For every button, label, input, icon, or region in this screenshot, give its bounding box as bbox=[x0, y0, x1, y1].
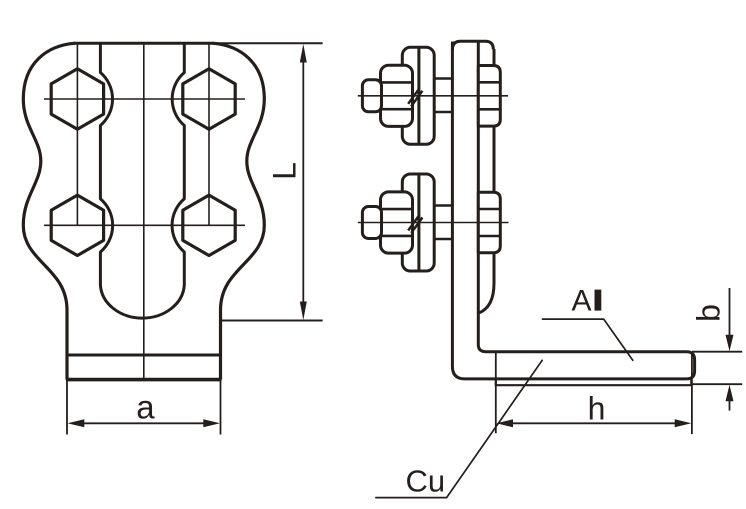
base plate top seam bbox=[67, 354, 221, 357]
svg-text:Cu: Cu bbox=[406, 464, 446, 499]
dimension a extension left bbox=[66, 381, 68, 435]
svg-text:L: L bbox=[267, 162, 303, 180]
side view: top cap of plates bbox=[452, 41, 493, 50]
dimension h extension right bbox=[691, 352, 693, 434]
dimension h extension left bbox=[495, 353, 497, 433]
lower right-side nut bbox=[478, 192, 500, 253]
dimension a line bbox=[84, 422, 204, 424]
dimension b arrow up bbox=[726, 385, 734, 402]
Cu label leader bbox=[375, 360, 542, 498]
side view: L-bracket (Al) outline bbox=[452, 42, 694, 379]
hexagon bolt head upper-right bbox=[183, 69, 235, 129]
side view: rear strip right edge with taper bbox=[479, 49, 494, 313]
lower nut facet lines bbox=[381, 209, 413, 236]
Al label leader bbox=[542, 319, 633, 361]
upper right nut facets bbox=[478, 82, 500, 109]
upper bolt tip bbox=[362, 80, 381, 112]
svg-text:a: a bbox=[136, 389, 155, 426]
hexagon bolt head upper-left bbox=[51, 69, 103, 129]
dimension b line bottom bbox=[729, 401, 731, 411]
clamp body outline right side bbox=[213, 43, 265, 379]
upper bolt shaft bbox=[434, 79, 452, 113]
dimension b arrow down bbox=[726, 335, 734, 352]
dimension a extension right bbox=[220, 381, 222, 435]
dimension h line bbox=[512, 422, 676, 424]
lower spring washer split bbox=[408, 215, 422, 233]
lower right nut facets bbox=[478, 209, 500, 236]
base plate bottom edge bbox=[66, 378, 222, 382]
dimension h arrow left bbox=[496, 419, 513, 427]
upper bolt nut bbox=[381, 65, 413, 126]
hexagon bolt head lower-right bbox=[183, 195, 235, 255]
dimension L arrow bottom bbox=[300, 302, 307, 321]
svg-text:A: A bbox=[572, 285, 592, 318]
dimension b extension bottom bbox=[692, 383, 742, 385]
hexagon bolt head lower-left bbox=[51, 195, 103, 255]
upper bolt washers (jaw plates) bbox=[402, 47, 434, 144]
row centerline lower bbox=[44, 224, 245, 226]
dimension a arrow right bbox=[203, 419, 220, 427]
lower bolt washers (jaw plates) bbox=[402, 174, 434, 271]
svg-text:b: b bbox=[690, 304, 726, 322]
dimension L extension bottom bbox=[221, 320, 323, 322]
clamp top edge bbox=[74, 42, 214, 45]
upper spring washer split bbox=[408, 88, 422, 106]
lower bolt centerline bbox=[358, 222, 509, 224]
svg-text:h: h bbox=[588, 391, 606, 427]
dimension h arrow right bbox=[675, 419, 692, 427]
dimension b line top bbox=[729, 288, 731, 336]
upper right-side nut bbox=[478, 66, 500, 127]
bolt centerline right column bbox=[208, 43, 210, 225]
side view: Cu pad under leg bbox=[496, 379, 692, 385]
slot left wavy edge bbox=[100, 43, 184, 318]
dimension a arrow left bbox=[68, 419, 85, 427]
dimension b extension top bbox=[692, 351, 742, 353]
vertical center line of clamp bbox=[143, 43, 145, 379]
bolt centerline left column bbox=[76, 43, 78, 225]
dimension L line bbox=[302, 60, 304, 304]
dimension L extension top bbox=[211, 42, 323, 44]
lower bolt shaft bbox=[434, 206, 452, 240]
upper bolt centerline bbox=[358, 95, 508, 97]
lower bolt nut bbox=[381, 192, 413, 253]
upper nut facet lines bbox=[381, 82, 413, 109]
clamp body outline left side bbox=[23, 43, 75, 379]
lower bolt tip bbox=[362, 207, 381, 239]
row centerline upper bbox=[44, 98, 245, 100]
dimension L arrow top bbox=[300, 44, 307, 63]
